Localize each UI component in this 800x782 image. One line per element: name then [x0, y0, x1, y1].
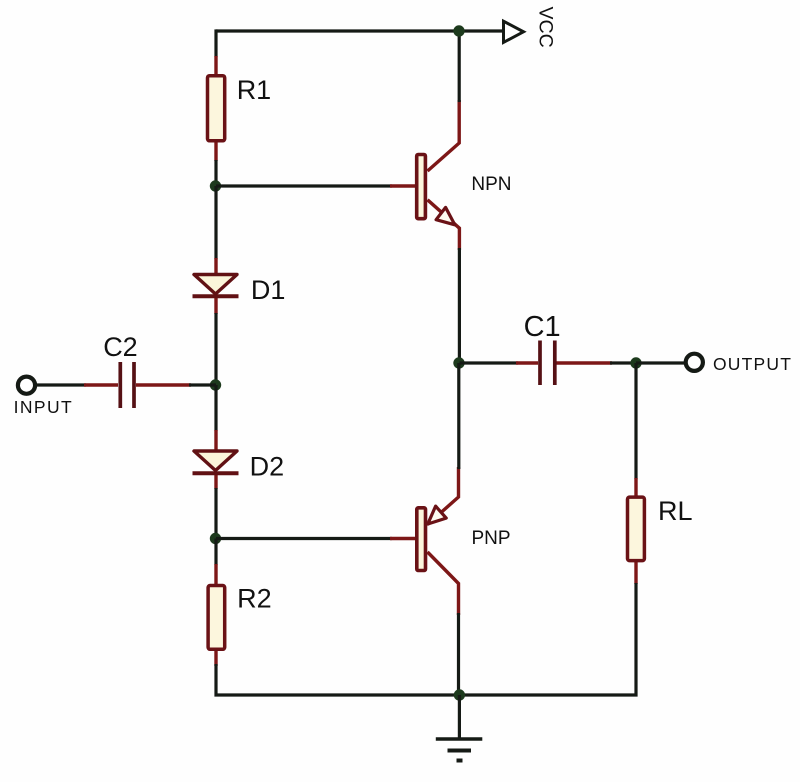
wire input to C2 [35, 383, 87, 386]
label C1 [524, 311, 561, 343]
node: VCC junction [453, 25, 464, 36]
svg-text:C1: C1 [524, 311, 561, 343]
node: output junction (emitters) [453, 357, 464, 368]
wire middle rail (NPN emitter to output node) [458, 248, 461, 363]
wire left rail (base node to D1) [214, 186, 217, 259]
wire middle rail (PNP collector to bottom rail) [457, 613, 460, 695]
wire left rail (D2 to PNP base node) [214, 488, 217, 539]
transistor PNP Q2 [390, 467, 459, 615]
svg-text:OUTPUT: OUTPUT [713, 354, 792, 374]
wire left rail (D1 to input node) [214, 313, 217, 385]
label VCC [535, 7, 557, 48]
svg-text:D1: D1 [251, 275, 286, 305]
resistor R2 [208, 564, 225, 666]
wire left rail (PNP base node to R2) [214, 539, 217, 566]
wire output node to C1 [460, 361, 519, 364]
wire middle rail top (VCC node to NPN collector) [458, 31, 461, 102]
label PNP [472, 528, 511, 549]
wire NPN base (junction to transistor) [216, 184, 392, 187]
wire right rail (RL node to RL) [634, 363, 637, 479]
wire C2 to input node [189, 383, 216, 386]
svg-text:PNP: PNP [472, 528, 511, 549]
terminal OUTPUT [686, 354, 703, 371]
label C2 [103, 332, 138, 362]
wire left rail (R1 to base node) [214, 160, 217, 186]
wire left rail lower (R2 to bottom rail) [216, 664, 459, 695]
label R1 [237, 75, 272, 105]
diode D1 [193, 258, 239, 314]
wire middle rail (output node to PNP emitter) [457, 363, 460, 469]
label NPN [471, 174, 511, 195]
wire top rail [216, 29, 502, 32]
svg-text:R1: R1 [237, 75, 272, 105]
wire C1 to RL node [610, 361, 636, 364]
label RL [658, 496, 693, 526]
power VCC arrow [504, 21, 524, 42]
resistor RL [628, 478, 645, 584]
svg-text:R2: R2 [237, 584, 272, 614]
transistor NPN Q1 [390, 100, 459, 250]
diode D2 [193, 430, 239, 489]
wire right rail lower (RL to bottom rail) [459, 583, 636, 695]
svg-text:INPUT: INPUT [14, 397, 74, 417]
wire RL node to output terminal [636, 361, 685, 364]
resistor R1 [208, 56, 225, 161]
node: R1/D1/NPN-base junction [210, 180, 221, 191]
svg-text:D2: D2 [250, 451, 285, 481]
label OUTPUT [713, 354, 792, 374]
wire PNP base (junction to transistor) [216, 537, 392, 540]
label INPUT [14, 397, 74, 417]
node: RL junction [630, 357, 641, 368]
node: input junction [210, 379, 221, 390]
svg-text:C2: C2 [103, 332, 138, 362]
svg-text:NPN: NPN [471, 174, 511, 195]
label R2 [237, 584, 272, 614]
svg-text:RL: RL [658, 496, 693, 526]
label D2 [250, 451, 285, 481]
node: ground junction [454, 689, 465, 700]
wire left rail upper (top rail to R1) [214, 29, 217, 57]
terminal INPUT [18, 377, 35, 394]
capacitor C1 [516, 341, 612, 386]
wire left rail (input node to D2) [214, 385, 217, 431]
capacitor C2 [84, 362, 191, 408]
ground symbol [436, 695, 483, 761]
node: D2/R2/PNP-base junction [210, 533, 221, 544]
label D1 [251, 275, 286, 305]
svg-text:VCC: VCC [535, 7, 557, 48]
